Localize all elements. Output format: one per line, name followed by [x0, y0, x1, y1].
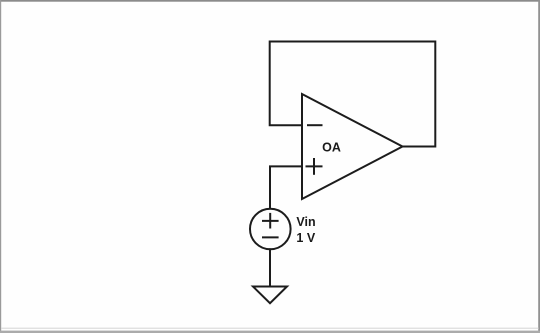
op-amp inverting input marker (minus) [308, 124, 322, 126]
voltage source minus marker [263, 236, 278, 238]
svg-text:1 V: 1 V [296, 231, 315, 245]
wire: source bottom to ground [269, 249, 271, 285]
svg-text:OA: OA [322, 140, 341, 154]
svg-text:Vin: Vin [296, 215, 315, 229]
op-amp U1 triangle body [302, 94, 403, 199]
voltage source V1 circle [250, 209, 291, 250]
voltage source plus marker [263, 220, 278, 222]
wire: feedback loop from op-amp output up and around to inverting input [270, 42, 436, 147]
ground [253, 287, 287, 304]
wire: non-inverting input from node A [270, 166, 301, 209]
op-amp non-inverting input marker (plus) [307, 165, 322, 167]
